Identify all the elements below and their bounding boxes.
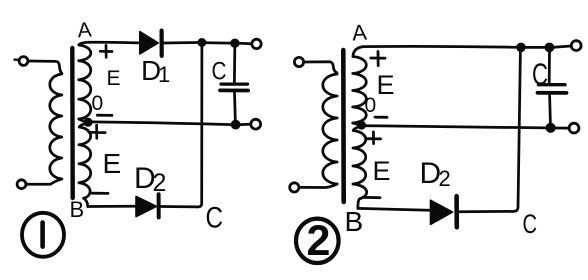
capacitor C2 bottom lead (548, 95, 552, 123)
transformer T1 primary winding (50, 74, 62, 180)
capacitor C2 plates (539, 83, 566, 86)
svg-text:C: C (206, 202, 224, 235)
capacitor C1 top lead (233, 47, 236, 82)
junction dot capacitor bottom (circuit 1) (231, 120, 240, 129)
svg-text:B: B (345, 206, 364, 237)
wire primary top (circuit 1) (28, 61, 62, 74)
svg-text:E: E (103, 148, 122, 179)
svg-text:E: E (377, 70, 395, 100)
wire node B to diode D2 (88, 205, 135, 208)
polarity - above B (circuit 1) (92, 192, 108, 195)
junction dot capacitor bottom (circuit 2) (546, 123, 555, 132)
transformer T2 primary winding (323, 73, 337, 184)
svg-text:A: A (351, 19, 368, 45)
wire node C vertical (circuit 2) (514, 52, 520, 212)
transformer T1 secondary lower half (79, 124, 91, 207)
polarity - under 0 (circuit 2) (375, 116, 387, 119)
junction dot capacitor top (circuit 2) (545, 43, 554, 52)
wire node 0 rail (center tap to output -) (92, 122, 231, 125)
diode D1 (140, 32, 158, 54)
wire capacitor top to output + terminal (circuit 2) (554, 46, 571, 47)
svg-text:E: E (373, 156, 391, 186)
svg-text:C: C (532, 57, 548, 92)
wire D2 cathode to node C corner (circuit 2) (460, 210, 514, 213)
transformer T1 core (70, 48, 75, 198)
junction dot node C top (circuit 2) (517, 43, 526, 52)
junction dot node C top (circuit 1) (198, 39, 206, 47)
wire node A to diode D1 (89, 41, 139, 44)
terminal output - (circuit 2) (569, 123, 579, 133)
diode D2 (circuit 2) (431, 200, 453, 224)
wire primary top (circuit 2) (304, 62, 337, 73)
transformer T2 core (341, 50, 346, 202)
transformer T1 secondary upper half (79, 42, 91, 122)
wire capacitor bottom to output - terminal (240, 123, 251, 126)
svg-text:C: C (212, 58, 227, 86)
polarity + upper (circuit 1) (100, 45, 112, 57)
polarity + lower (circuit 2) (367, 132, 381, 144)
polarity - under 0 (circuit 1) (97, 114, 112, 117)
wire capacitor top to output + terminal (239, 42, 251, 45)
capacitor C2 top lead (548, 52, 551, 83)
wire primary bottom (circuit 2) (299, 184, 337, 188)
junction dot capacitor top (circuit 1) (231, 39, 239, 47)
terminal J2 top (primary input, circuit 2) (294, 57, 303, 66)
node 0 center-tap junction dot (84, 118, 92, 126)
capacitor C1 bottom lead (233, 92, 237, 120)
terminal J1 top (primary input, circuit 1) (19, 57, 28, 66)
svg-text:2: 2 (153, 169, 167, 197)
svg-text:E: E (107, 67, 121, 90)
wire D1 cathode to node C top (164, 41, 198, 44)
transformer T2 secondary lower half (353, 127, 367, 209)
terminal output + (circuit 1) (252, 39, 261, 48)
polarity + upper (circuit 2) (371, 52, 385, 66)
svg-text:0: 0 (92, 92, 104, 115)
polarity - above B (circuit 2) (363, 196, 380, 199)
node 0 center-tap junction dot (circuit 2) (358, 121, 366, 129)
wire node B to diode D2 (circuit 2) (358, 208, 430, 210)
transformer T2 secondary upper half (353, 47, 367, 125)
terminal output - (circuit 1) (251, 119, 261, 129)
wire capacitor bottom to output - terminal (circuit 2) (555, 127, 569, 130)
terminal output + (circuit 2) (571, 41, 581, 51)
capacitor C1 plates (221, 82, 248, 85)
badge 2 circled figure number (296, 219, 339, 263)
svg-text:2: 2 (439, 166, 451, 191)
svg-text:0: 0 (365, 94, 377, 117)
wire node C vertical (circuit 1) (198, 46, 202, 207)
polarity + lower (circuit 1) (89, 125, 105, 138)
wire stub left of J1 top (15, 58, 19, 61)
wire primary bottom (circuit 1) (26, 179, 62, 184)
wire node A top rail (circuit 2) (364, 45, 517, 49)
terminal J1 bottom (primary input, circuit 1) (17, 180, 26, 189)
wire D2 cathode to node C corner (161, 205, 198, 208)
wire node 0 rail (circuit 2) (366, 126, 546, 128)
wire node C top to capacitor top (circuit 2) (525, 46, 545, 49)
diode D2 (circuit 1) (136, 196, 156, 216)
badge 1 circled figure number (22, 213, 64, 257)
svg-text:2: 2 (307, 217, 331, 265)
terminal J2 bottom (primary input, circuit 2) (290, 183, 299, 192)
svg-text:B: B (70, 197, 85, 222)
svg-text:1: 1 (158, 62, 170, 87)
wire node C top to capacitor top (206, 41, 231, 44)
svg-text:C: C (523, 209, 538, 239)
svg-text:A: A (77, 19, 93, 43)
